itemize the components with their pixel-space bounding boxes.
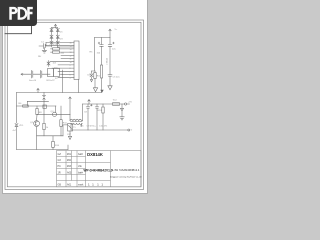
svg-text:13: 13 <box>70 52 72 54</box>
svg-text:1 1 1 1: 1 1 1 1 <box>88 183 103 187</box>
svg-text:Sner10: Sner10 <box>29 79 37 82</box>
svg-text:V+: V+ <box>115 29 118 31</box>
svg-text:481: 481 <box>80 125 84 127</box>
resistor R5B on x44 <box>43 105 47 108</box>
input box under badge <box>5 25 32 34</box>
wire R11 down <box>94 79 96 88</box>
svg-text:22u: 22u <box>112 49 116 51</box>
control wire upper <box>27 100 48 102</box>
output terminal <box>125 103 127 105</box>
capacitor C9 electrolytic <box>95 104 99 130</box>
wire rail C mid <box>109 46 111 74</box>
ground arrow x122 <box>120 117 124 120</box>
capacitor C6 electrolytic <box>108 45 112 47</box>
svg-text:1.3W 7A6AM4RNB12.4: 1.3W 7A6AM4RNB12.4 <box>112 168 140 172</box>
inductor L1 <box>113 103 120 106</box>
wire connector x27.3 <box>26 101 28 106</box>
wire R14 down <box>52 147 54 149</box>
U1 pin 2 <box>46 45 74 47</box>
wire U1 down <box>78 80 80 93</box>
svg-text:A01: A01 <box>67 184 72 187</box>
IC U1 connector body <box>74 41 79 80</box>
letter F <box>27 7 33 20</box>
title block column line x85.5 <box>85 151 87 187</box>
plus C8 <box>91 104 93 106</box>
diode D7 below pins <box>47 61 50 67</box>
transformer T1 right leg <box>82 104 84 121</box>
U1 pin 1 <box>46 42 74 44</box>
diode D2 <box>56 28 59 31</box>
svg-text:R11: R11 <box>97 76 102 78</box>
svg-text:R8: R8 <box>39 112 43 114</box>
output power flag <box>69 97 71 114</box>
svg-text:Q2: Q2 <box>30 122 34 124</box>
svg-text:NU: NU <box>38 56 42 58</box>
resistor R11 <box>94 71 96 73</box>
wire R13 down <box>102 113 104 130</box>
resistor R3 on pins <box>53 51 60 53</box>
svg-text:#01: #01 <box>67 153 72 156</box>
U1 pin 4 <box>51 51 75 53</box>
svg-text:D1: D1 <box>60 32 64 34</box>
ground for C1 <box>42 48 46 53</box>
wire diode top join <box>52 27 58 29</box>
title block column line x77 <box>76 151 78 187</box>
zener ZD1 <box>15 124 18 127</box>
wire R7 down <box>43 130 45 136</box>
svg-text:16: 16 <box>70 43 72 45</box>
secondary ground rail <box>71 129 128 131</box>
transformer T1 secondary coil <box>71 123 82 124</box>
control wire lower <box>17 105 57 107</box>
capacitor C4 stub <box>101 38 103 45</box>
diode D6 <box>56 41 59 44</box>
wire R10 down <box>60 126 62 135</box>
svg-text:Dongguan Converay Toy Power Co: Dongguan Converay Toy Power Co.,Ltd <box>110 175 142 178</box>
right section top wire <box>95 37 111 39</box>
wire rail A <box>92 38 96 72</box>
transistor Q2 <box>34 121 40 127</box>
svg-text:C1: C1 <box>41 42 45 44</box>
wire pin bus left <box>45 43 47 46</box>
svg-text:C10 471: C10 471 <box>99 126 108 128</box>
plus sign C4 <box>98 42 100 44</box>
U1 pin 9 <box>52 67 74 69</box>
title block column line x110.5 <box>110 151 112 187</box>
transformer T1 left leg <box>69 114 71 120</box>
svg-text:6: 6 <box>70 75 71 77</box>
svg-text:R5: R5 <box>90 52 94 54</box>
svg-text:GX: GX <box>58 159 62 162</box>
capacitor C5 <box>108 75 112 86</box>
svg-text:G: G <box>131 130 133 132</box>
svg-text:817: 817 <box>67 134 71 136</box>
V+ power flag <box>109 29 111 37</box>
U1 pin 11 <box>62 74 74 76</box>
svg-text:1R: 1R <box>58 172 61 175</box>
wire x37 down <box>36 106 38 109</box>
diode D5 <box>50 41 53 44</box>
svg-text:PC: PC <box>58 165 62 168</box>
wire x68 up <box>67 145 69 150</box>
opto internals <box>69 126 72 129</box>
title block row line y180.5 <box>57 180 111 182</box>
resistor R11 box <box>94 73 96 79</box>
plus sign C6 <box>113 42 115 44</box>
wire diode column right <box>57 28 59 48</box>
wire opto down <box>69 131 71 136</box>
svg-text:+: + <box>95 125 97 127</box>
capacitor C1 <box>39 44 52 49</box>
svg-text:#02: #02 <box>67 159 72 162</box>
Q2 internals <box>35 121 38 126</box>
svg-text:bat#: bat# <box>78 153 83 156</box>
power flag top of diode stack <box>54 24 56 28</box>
U1 pin 10 <box>58 70 74 72</box>
svg-text:14: 14 <box>70 49 72 51</box>
power flag on control wire <box>43 98 45 115</box>
U1 pin 6 <box>61 58 74 60</box>
svg-text:PC817: PC817 <box>105 58 107 65</box>
svg-text:ZD1: ZD1 <box>19 125 24 127</box>
svg-text:bat#: bat# <box>78 172 83 175</box>
resistor R2 on pins <box>53 48 60 50</box>
svg-text:GZ: GZ <box>58 153 62 156</box>
secondary top wire <box>83 103 125 105</box>
letter D <box>18 7 28 20</box>
wire x103 down <box>102 104 104 107</box>
PDF badge <box>0 0 37 26</box>
resistor R7 <box>43 123 45 129</box>
svg-text:T1: T1 <box>73 127 76 129</box>
wire x63 up to opto <box>63 125 68 136</box>
svg-text:472: 472 <box>61 53 65 55</box>
svg-text:R14: R14 <box>55 145 60 147</box>
title block row line y162.5 <box>57 162 111 164</box>
svg-text:FC: FC <box>55 78 58 80</box>
svg-text:chk: chk <box>78 165 83 168</box>
wire rail C down <box>109 38 111 45</box>
wire K1 right <box>60 73 63 75</box>
ground arrow opto <box>68 136 71 139</box>
resistor R12 tall <box>100 65 102 78</box>
svg-text:R10: R10 <box>63 123 68 125</box>
svg-text:B12x4 P: B12x4 P <box>47 80 56 82</box>
resistor R14 <box>52 141 55 147</box>
bottom bus wire <box>17 149 69 151</box>
base wire y114.3 <box>37 113 70 115</box>
ground mark below bus <box>43 93 46 97</box>
output wire <box>127 103 130 105</box>
diode D10 <box>90 71 93 82</box>
wire left rail down <box>16 93 18 124</box>
wire diode column left <box>51 28 53 48</box>
svg-text:C8: C8 <box>84 112 88 114</box>
diode D3 <box>50 35 53 38</box>
svg-text:C5 22u: C5 22u <box>113 77 121 79</box>
title block column line x71.5 <box>71 151 73 181</box>
svg-text:A03: A03 <box>67 172 72 175</box>
resistor R10 <box>60 120 62 127</box>
ground arrow rail C <box>108 86 112 90</box>
wire left rail lower <box>16 127 18 150</box>
letter P <box>9 7 17 20</box>
svg-text:10: 10 <box>70 62 72 64</box>
svg-text:11: 11 <box>70 59 72 61</box>
U1 pin 7 <box>50 61 74 63</box>
title block outline <box>57 151 142 187</box>
svg-text:WP-D4K4RB42V1.0: WP-D4K4RB42V1.0 <box>83 168 112 172</box>
svg-text:4v7: 4v7 <box>13 130 17 132</box>
T1 secondary taps <box>71 123 82 130</box>
svg-text:104: 104 <box>97 53 101 55</box>
capacitor C8 electrolytic <box>86 104 90 130</box>
ground arrow rail A <box>93 88 97 92</box>
svg-text:9: 9 <box>70 65 71 67</box>
svg-text:103: 103 <box>53 63 57 65</box>
title block row line y174.5 <box>57 174 86 176</box>
relay box K1 <box>48 69 54 77</box>
arrow input <box>21 73 23 75</box>
optocoupler U2 <box>68 124 73 131</box>
resistor R8 <box>36 109 38 115</box>
bus end arrow <box>100 90 103 93</box>
wire vertical x62.5 <box>62 70 64 93</box>
wire R8 to Q2 <box>36 115 38 121</box>
power flag x89 <box>88 100 90 105</box>
svg-text:GB: GB <box>58 184 62 187</box>
diode D4 <box>56 35 59 38</box>
wire x61 down <box>60 106 62 120</box>
svg-text:1k: 1k <box>46 127 49 129</box>
gnd output terminal <box>128 129 130 131</box>
U1 pin 8 <box>58 64 74 66</box>
svg-text:#03: #03 <box>67 165 72 168</box>
diode D9 at output <box>121 104 124 117</box>
svg-text:R6: R6 <box>19 103 23 105</box>
svg-text:7: 7 <box>70 71 71 73</box>
Q3 base stub <box>55 106 57 112</box>
U1 pin 3 <box>51 48 75 50</box>
svg-text:8: 8 <box>70 68 71 70</box>
U1 pin 12 <box>58 77 74 79</box>
power flag on bus <box>37 88 39 92</box>
wire x44 down <box>43 114 45 123</box>
inner border frame <box>7 22 141 187</box>
transformer T1 primary coil <box>70 119 83 120</box>
white document page <box>2 0 148 194</box>
feedback wire y135.8 <box>37 135 63 137</box>
svg-text:mark: mark <box>78 184 84 187</box>
capacitor C4 electrolytic <box>100 45 104 65</box>
title block column line x66 <box>65 151 67 187</box>
U1 pin 5 <box>61 54 74 56</box>
svg-text:D3: D3 <box>60 39 64 41</box>
resistor R13 <box>102 107 104 113</box>
X capacitor line <box>23 70 50 78</box>
wire bridge output <box>58 46 75 48</box>
transistor Q3 circle <box>52 112 56 116</box>
svg-text:Tout: Tout <box>113 99 118 102</box>
primary bus wire <box>17 92 102 94</box>
wire R12 down <box>101 78 103 93</box>
transformer T1 core <box>71 121 83 123</box>
svg-text:15: 15 <box>70 46 72 48</box>
resistor R6 <box>23 105 29 107</box>
relay box K1b <box>54 69 60 77</box>
wire x53 down <box>52 136 54 142</box>
diode D1 <box>50 28 53 31</box>
Q2 emitter down <box>36 127 38 150</box>
svg-text:DX814K: DX814K <box>87 152 103 157</box>
svg-text:5: 5 <box>70 78 71 80</box>
title block row line y168.5 <box>57 168 86 170</box>
title block row line y156.5 <box>57 156 86 158</box>
svg-text:12: 12 <box>70 55 72 57</box>
outer border frame <box>5 20 144 190</box>
svg-text:+5V: +5V <box>128 102 132 104</box>
